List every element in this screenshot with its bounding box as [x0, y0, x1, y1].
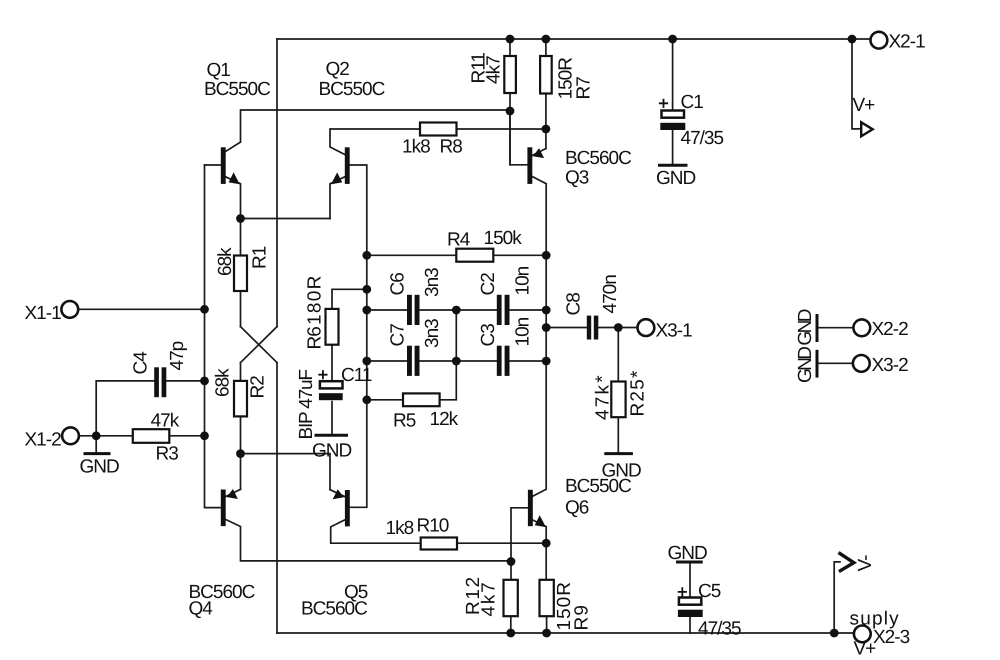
svg-text:R8: R8: [440, 137, 463, 158]
svg-text:Q6: Q6: [565, 498, 589, 519]
svg-text:C11: C11: [341, 365, 372, 386]
svg-text:X2-3: X2-3: [873, 627, 910, 648]
svg-text:X2-2: X2-2: [872, 319, 909, 340]
svg-text:R1: R1: [250, 246, 271, 269]
svg-text:68k: 68k: [213, 368, 234, 397]
svg-text:Q2: Q2: [326, 59, 350, 80]
svg-text:V-: V-: [855, 555, 876, 572]
svg-text:R10: R10: [417, 516, 449, 537]
svg-text:C6: C6: [388, 273, 409, 296]
svg-text:R25*: R25*: [628, 369, 649, 416]
svg-text:X1-1: X1-1: [25, 303, 62, 324]
svg-text:3n3: 3n3: [422, 319, 443, 348]
svg-text:68k: 68k: [215, 247, 236, 276]
svg-text:BC550C: BC550C: [565, 476, 631, 497]
svg-text:V+: V+: [853, 95, 876, 116]
svg-text:V+: V+: [854, 639, 877, 660]
svg-text:1k8: 1k8: [386, 518, 414, 539]
svg-text:3n3: 3n3: [422, 268, 443, 297]
svg-text:C4: C4: [131, 351, 152, 375]
svg-text:C1: C1: [681, 92, 704, 113]
svg-text:Q4: Q4: [189, 599, 214, 620]
svg-text:150k: 150k: [484, 228, 523, 249]
svg-text:BC560C: BC560C: [301, 599, 367, 620]
svg-text:BC550C: BC550C: [319, 79, 385, 100]
svg-text:12k: 12k: [430, 409, 459, 430]
svg-text:GND: GND: [795, 309, 816, 345]
svg-text:BC560C: BC560C: [565, 148, 631, 169]
svg-text:4k7: 4k7: [484, 56, 505, 84]
svg-text:47k*: 47k*: [593, 373, 614, 420]
svg-text:GND: GND: [80, 457, 120, 478]
svg-text:470n: 470n: [600, 275, 621, 314]
svg-text:X3-1: X3-1: [656, 321, 693, 342]
svg-text:BIP 47uF: BIP 47uF: [296, 370, 317, 440]
svg-text:R9: R9: [572, 604, 593, 631]
svg-text:Q1: Q1: [207, 60, 231, 81]
svg-text:1k8: 1k8: [402, 137, 430, 158]
svg-text:C2: C2: [478, 273, 499, 296]
svg-text:X3-2: X3-2: [872, 355, 909, 376]
svg-text:GND: GND: [656, 168, 696, 189]
svg-text:C7: C7: [388, 324, 409, 347]
svg-text:10n: 10n: [513, 266, 534, 295]
svg-text:47/35: 47/35: [681, 128, 724, 149]
svg-text:GND: GND: [795, 347, 816, 383]
svg-text:Q3: Q3: [565, 168, 589, 189]
svg-text:X1-2: X1-2: [25, 430, 62, 451]
svg-text:R2: R2: [248, 376, 269, 399]
svg-text:47/35: 47/35: [698, 619, 741, 640]
svg-text:R7: R7: [574, 77, 595, 100]
svg-text:C5: C5: [698, 581, 721, 602]
svg-text:4k7: 4k7: [479, 580, 500, 616]
svg-text:R6: R6: [305, 327, 326, 350]
svg-text:X2-1: X2-1: [889, 32, 926, 53]
svg-text:GND: GND: [312, 441, 352, 462]
svg-text:C8: C8: [564, 293, 585, 316]
svg-text:47k: 47k: [151, 411, 180, 432]
svg-text:R3: R3: [156, 444, 179, 465]
svg-text:R5: R5: [393, 411, 416, 432]
svg-text:C3: C3: [478, 324, 499, 347]
svg-text:10n: 10n: [513, 317, 534, 346]
svg-text:R4: R4: [447, 230, 471, 251]
svg-text:GND: GND: [668, 543, 708, 564]
svg-text:180R: 180R: [305, 274, 326, 325]
svg-text:BC550C: BC550C: [204, 79, 270, 100]
svg-text:47p: 47p: [167, 341, 188, 370]
